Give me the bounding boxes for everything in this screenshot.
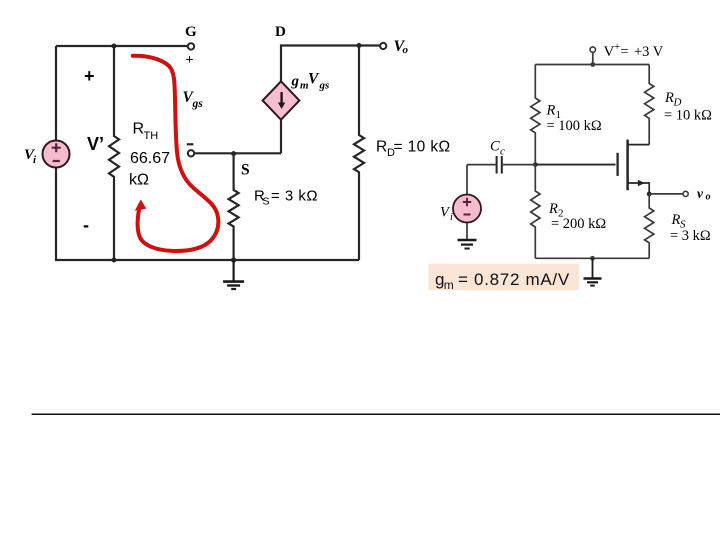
resistor R1	[531, 65, 540, 165]
node junction dot (source node)	[647, 192, 652, 197]
svg-text:+3 V: +3 V	[634, 44, 664, 60]
svg-text:c: c	[500, 146, 505, 158]
terminal V+	[590, 47, 595, 52]
svg-text:-: -	[83, 215, 89, 235]
terminal G-lower	[188, 150, 194, 156]
ground (left circuit)	[223, 260, 244, 289]
svg-text:kΩ: kΩ	[129, 172, 149, 189]
label gm = 0.872 mA/V	[435, 270, 570, 292]
capacitor Cc	[497, 156, 502, 174]
svg-text:= 3 kΩ: = 3 kΩ	[670, 228, 711, 244]
wire V+ stub	[592, 52, 594, 64]
svg-text:S: S	[263, 196, 270, 208]
svg-text:TH: TH	[144, 130, 159, 142]
red annotation loop arrow	[133, 56, 219, 251]
label RS = 3 kOhm	[254, 188, 318, 208]
dependent source gmVgs (diamond)	[263, 81, 300, 119]
ground (under Vi)	[458, 240, 477, 249]
label vo	[697, 186, 711, 203]
wire top rail (right circuit)	[535, 64, 649, 66]
resistor RS (right)	[645, 194, 654, 258]
label R1	[546, 103, 562, 122]
svg-text:V: V	[308, 71, 320, 88]
node junction dot (ground)	[231, 257, 236, 262]
label RS (right)	[671, 212, 687, 231]
source Vi (right)	[453, 195, 481, 223]
svg-text:= 10 kΩ: = 10 kΩ	[394, 139, 451, 156]
terminal vo	[683, 191, 688, 196]
svg-text:G: G	[185, 24, 197, 40]
svg-text:V: V	[604, 44, 615, 60]
svg-text:= 200 kΩ: = 200 kΩ	[551, 216, 606, 232]
svg-text:+: +	[614, 41, 620, 53]
red arrowhead	[135, 200, 147, 211]
divider line	[32, 413, 720, 415]
label Cc	[490, 139, 505, 158]
svg-text:= 10 kΩ: = 10 kΩ	[664, 107, 712, 123]
svg-text:= 0.872 mA/V: = 0.872 mA/V	[458, 270, 570, 289]
svg-text:S: S	[241, 162, 250, 179]
transistor M1 (NMOS)	[535, 140, 649, 194]
wire bottom rail	[55, 259, 359, 261]
svg-text:66.67: 66.67	[130, 150, 170, 167]
label RD (right)	[664, 90, 682, 109]
node S junction dot	[231, 151, 236, 156]
svg-text:o: o	[706, 192, 711, 203]
label Vi (right)	[440, 204, 453, 223]
label Vi	[24, 147, 37, 166]
wire S rail	[194, 152, 281, 154]
svg-text:C: C	[490, 139, 500, 155]
label Vo	[394, 38, 409, 56]
svg-text:R: R	[133, 121, 145, 138]
svg-text:gs: gs	[319, 80, 330, 92]
label RD = 10 kOhm	[376, 139, 451, 160]
terminal G	[188, 43, 194, 49]
svg-text:D: D	[275, 24, 286, 40]
terminal Vo	[380, 43, 386, 49]
svg-text:i: i	[33, 154, 37, 166]
resistor RD (left)	[354, 46, 364, 261]
highlight box gm value	[428, 264, 579, 291]
label RTH	[133, 121, 159, 143]
svg-text:i: i	[450, 212, 453, 223]
svg-text:gs: gs	[192, 98, 204, 110]
node junction dot (Vo / RD top)	[357, 43, 362, 48]
svg-text:m: m	[444, 278, 454, 292]
wire top rail to G	[56, 45, 188, 47]
label V+ = +3 V	[604, 41, 664, 60]
transistor source arrowhead	[638, 180, 645, 187]
svg-text:o: o	[403, 44, 409, 56]
svg-text:g: g	[291, 74, 300, 90]
svg-text:R: R	[671, 212, 681, 228]
svg-text:R: R	[664, 90, 674, 106]
svg-text:R: R	[376, 139, 387, 156]
wire left vertical (Vi branch)	[55, 46, 57, 260]
node junction dot (V+ rail)	[590, 62, 595, 67]
node junction dot (gate node)	[533, 162, 538, 167]
wire source to vo	[649, 193, 683, 195]
node junction dot (bottom rail)	[590, 256, 595, 261]
node junction dot top (RTH top)	[112, 44, 117, 49]
resistor RTH	[109, 46, 119, 260]
wire dependent-source branch	[281, 46, 381, 154]
resistor R2	[531, 165, 540, 259]
label minus (above lower terminal)	[187, 143, 194, 145]
svg-text:=: =	[621, 45, 629, 60]
svg-text:+: +	[84, 66, 95, 86]
label R2	[548, 201, 564, 220]
svg-text:V’: V’	[87, 134, 104, 154]
wire Vi to Cc to gate	[467, 165, 616, 239]
label Vgs	[183, 89, 204, 110]
svg-text:v: v	[697, 186, 704, 201]
label gm Vgs (beside diamond)	[291, 71, 330, 92]
source Vi	[43, 141, 70, 168]
resistor RS (left)	[229, 154, 239, 260]
wire bottom rail (right circuit)	[535, 257, 649, 259]
svg-text:= 3 kΩ: = 3 kΩ	[271, 188, 318, 205]
svg-text:= 100 kΩ: = 100 kΩ	[547, 118, 602, 134]
svg-text:+: +	[186, 53, 194, 68]
resistor RD (right)	[645, 65, 654, 145]
svg-text:R: R	[548, 201, 558, 217]
node junction dot (RTH bottom)	[112, 258, 117, 263]
ground (bottom right)	[584, 258, 602, 285]
svg-text:R: R	[546, 103, 556, 119]
